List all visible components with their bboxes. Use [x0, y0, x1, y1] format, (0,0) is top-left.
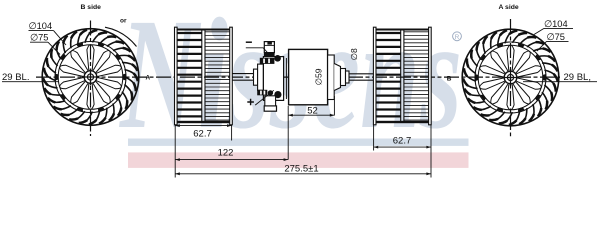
svg-text:A side: A side — [499, 4, 519, 11]
dimension 62.7 right line — [374, 146, 431, 148]
svg-text:52: 52 — [307, 105, 318, 116]
svg-text:B side: B side — [81, 4, 102, 11]
right fan wheel hub — [504, 71, 517, 84]
svg-text:62.7: 62.7 — [193, 129, 212, 140]
end bell step — [258, 64, 264, 90]
svg-text:or: or — [120, 18, 127, 25]
svg-text:275.5±1: 275.5±1 — [284, 163, 318, 174]
watermark pink stripe — [128, 152, 469, 168]
extension line right (x431) — [430, 125, 432, 178]
positive terminal hatch block — [257, 90, 267, 96]
motor shaft to right drum (d8) — [349, 74, 373, 80]
right blower drum blade lines left column — [376, 33, 401, 116]
left blower drum left end cap — [175, 27, 178, 125]
shaft between left drum and motor — [232, 74, 253, 81]
svg-text:∅8: ∅8 — [349, 48, 359, 60]
left fan wheel wedges between spokes — [55, 43, 125, 112]
extension line right drum left (x373.6) — [373, 125, 375, 151]
watermark registered trademark symbol — [453, 32, 462, 41]
svg-text:R: R — [455, 34, 460, 41]
left blower drum body outline — [175, 29, 233, 31]
dimension 62.7 left line — [175, 125, 231, 127]
dimension 275.5 line — [175, 173, 431, 175]
right blower drum blade lines right column — [404, 32, 429, 120]
motor body right shoulder — [328, 55, 335, 100]
svg-text:∅104: ∅104 — [29, 21, 53, 31]
rotation direction arc — [105, 27, 137, 46]
left fan wheel 29 blades — [45, 32, 136, 122]
extension line left drum right (x231.6) — [231, 125, 233, 141]
left blower drum blade lines right column — [205, 32, 230, 120]
left fan wheel outer circle (d104) — [42, 29, 139, 126]
minus leader line — [246, 48, 271, 56]
svg-text:A: A — [146, 74, 151, 81]
main horizontal centerline — [36, 76, 560, 78]
svg-text:∅75: ∅75 — [30, 33, 48, 43]
right blower drum left end cap — [373, 27, 376, 125]
minus sign — [246, 41, 252, 43]
left bearing cup — [254, 69, 258, 85]
left fan wheel rosette spokes — [60, 45, 122, 110]
left fan wheel inner ring circles (d75) — [55, 42, 126, 113]
svg-text:∅75: ∅75 — [547, 32, 565, 42]
right fan wheel rosette spokes — [480, 45, 542, 110]
left blower drum right end cap — [230, 27, 233, 125]
right blower drum body outline — [373, 29, 431, 31]
right fan wheel wedges between spokes — [475, 43, 545, 112]
extension line left (x175) — [174, 125, 176, 178]
left blower drum middle support ring — [201, 30, 203, 123]
dimension 52 line — [288, 114, 334, 116]
right fan wheel outer circle (d104) — [462, 29, 559, 126]
extension line motor right (x334.4) — [333, 96, 335, 116]
motor body (d59) — [289, 49, 328, 104]
dimension 122 line — [175, 159, 288, 161]
svg-text:∅104: ∅104 — [544, 19, 568, 29]
left blower drum blade lines left column — [177, 33, 202, 116]
plus leader line — [255, 90, 274, 105]
left fan wheel hub — [84, 71, 97, 84]
right wheel vertical centerline — [510, 19, 512, 136]
left wheel vertical centerline — [90, 21, 92, 137]
svg-text:122: 122 — [218, 147, 234, 158]
svg-text:∅59: ∅59 — [314, 68, 324, 85]
right blower drum right end cap — [429, 27, 432, 125]
watermark blue stripe — [128, 139, 469, 146]
right fan wheel 29 blades — [465, 32, 556, 122]
motor end bell — [263, 57, 283, 101]
extension line motor left (x288.2) — [287, 106, 289, 160]
bearing boss — [334, 64, 340, 91]
positive terminal housing — [265, 96, 276, 107]
plus sign — [247, 99, 254, 106]
svg-text:B: B — [447, 75, 452, 82]
right blower drum middle support ring — [400, 30, 402, 123]
negative terminal housing — [264, 42, 274, 53]
svg-text:62.7: 62.7 — [393, 135, 412, 146]
right fan wheel inner ring circles (d75) — [475, 42, 546, 113]
